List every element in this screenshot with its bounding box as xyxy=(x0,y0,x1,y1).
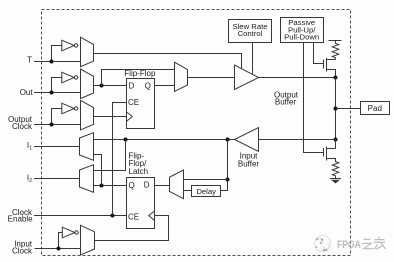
node input clock xyxy=(57,247,61,251)
wire Q out xyxy=(94,185,127,187)
pad box xyxy=(361,102,390,115)
wire I1 out xyxy=(34,146,80,148)
node T xyxy=(50,60,54,64)
inverter (Output Clock polarity) xyxy=(62,103,78,114)
svg-text:Delay: Delay xyxy=(196,187,216,196)
svg-text:Pull-Down: Pull-Down xyxy=(284,32,319,41)
wire pad vertical xyxy=(335,78,337,140)
delay box xyxy=(192,186,221,197)
wire input clock xyxy=(35,248,81,250)
wire delay to mux xyxy=(184,190,192,192)
mux (Out select) xyxy=(81,69,94,99)
svg-text:Out: Out xyxy=(20,88,34,97)
node Out xyxy=(50,91,54,95)
passive pull-up/pull-down box xyxy=(281,18,324,43)
wire I2 out xyxy=(34,178,80,180)
svg-text:Buffer: Buffer xyxy=(275,98,297,107)
node direct branch xyxy=(226,178,230,182)
wire mux to output buffer xyxy=(188,77,235,79)
flip-flop/latch box xyxy=(127,178,155,229)
svg-text:CE: CE xyxy=(128,98,139,107)
wire mux to D latch xyxy=(155,185,170,187)
wire Q to output mux xyxy=(155,85,175,87)
wire Out input xyxy=(34,92,81,94)
svg-text:Buffer: Buffer xyxy=(238,159,260,168)
ground xyxy=(330,179,341,183)
mux (input clock select) xyxy=(81,225,95,255)
svg-text:D: D xyxy=(129,81,135,90)
svg-text:Enable: Enable xyxy=(8,215,33,224)
svg-text:Clock: Clock xyxy=(12,122,33,131)
wire T input xyxy=(34,61,81,63)
node input branch xyxy=(334,138,338,142)
svg-text:D: D xyxy=(144,181,150,190)
clock pin triangle xyxy=(127,112,133,121)
flip-flop box xyxy=(127,79,155,129)
wire control to pull-up gate xyxy=(314,43,324,64)
inverter (T polarity) xyxy=(62,40,78,51)
wire Output Clock invert branch xyxy=(52,109,62,125)
svg-text:CE: CE xyxy=(128,213,139,222)
wire CE riser to FF xyxy=(113,103,127,216)
wire latch clock xyxy=(95,216,169,241)
transistor pull-up (PMOS) xyxy=(324,58,336,78)
dashed IOB boundary xyxy=(42,10,351,256)
mux (delay select) xyxy=(170,170,184,199)
svg-text:FPGA: FPGA xyxy=(337,239,361,251)
wire input buffer out xyxy=(94,139,235,141)
wire Out mux to D xyxy=(94,85,127,87)
wire control to pull-down gate xyxy=(304,43,324,153)
mux (I2 select) xyxy=(80,165,94,193)
wire buffer to delay xyxy=(221,140,228,191)
node CE xyxy=(111,214,115,218)
wire direct bypass to output mux xyxy=(102,70,175,86)
mux (registered/direct out select) xyxy=(175,62,188,91)
mux (T select) xyxy=(81,37,94,66)
inverter (input clock polarity) xyxy=(62,227,78,238)
svg-text:Pad: Pad xyxy=(368,104,382,113)
wire buffer to pad line xyxy=(259,77,336,79)
clock pin triangle (latch) xyxy=(149,211,155,221)
wire Q to I1 mux xyxy=(94,155,102,186)
mux (Output Clock select) xyxy=(81,100,94,129)
wire to pad xyxy=(336,108,361,110)
wire slew control to buffer xyxy=(252,43,254,75)
node I2 direct branch xyxy=(124,138,128,142)
wire direct to mux xyxy=(184,179,228,181)
wire clock to FF xyxy=(94,116,127,118)
mux (I1 select) xyxy=(80,133,94,161)
inverter (Out polarity) xyxy=(62,72,78,83)
wire input clock invert branch xyxy=(59,233,63,249)
svg-text:Q: Q xyxy=(145,81,151,90)
VCC rail xyxy=(329,40,342,42)
input buffer triangle xyxy=(235,128,259,152)
wire T to output buffer enable xyxy=(94,54,242,69)
wire clock enable xyxy=(34,215,127,217)
slew rate control box xyxy=(229,20,272,43)
svg-text:T: T xyxy=(27,56,32,65)
resistor pull-up xyxy=(332,41,338,60)
wire Output Clock input xyxy=(34,124,81,126)
svg-text:Q: Q xyxy=(129,181,135,190)
node D branch xyxy=(100,84,104,88)
svg-text:Clock: Clock xyxy=(12,246,33,255)
node delay branch xyxy=(226,138,230,142)
output buffer triangle xyxy=(235,65,259,89)
svg-text:Control: Control xyxy=(238,29,263,38)
svg-text:Flip-Flop: Flip-Flop xyxy=(124,69,156,78)
resistor pull-down xyxy=(332,161,338,179)
node pad-buffer xyxy=(334,76,338,80)
transistor pull-down (NMOS) xyxy=(324,140,336,161)
wire pad to input buffer xyxy=(259,139,336,141)
wire T invert branch xyxy=(52,46,62,62)
node Q to I1 xyxy=(100,184,104,188)
wire direct to I2 mux xyxy=(94,140,126,171)
node pad branch xyxy=(334,107,338,111)
wire Out invert branch xyxy=(52,78,62,93)
svg-text:Latch: Latch xyxy=(129,167,149,176)
node Output Clock xyxy=(50,123,54,127)
